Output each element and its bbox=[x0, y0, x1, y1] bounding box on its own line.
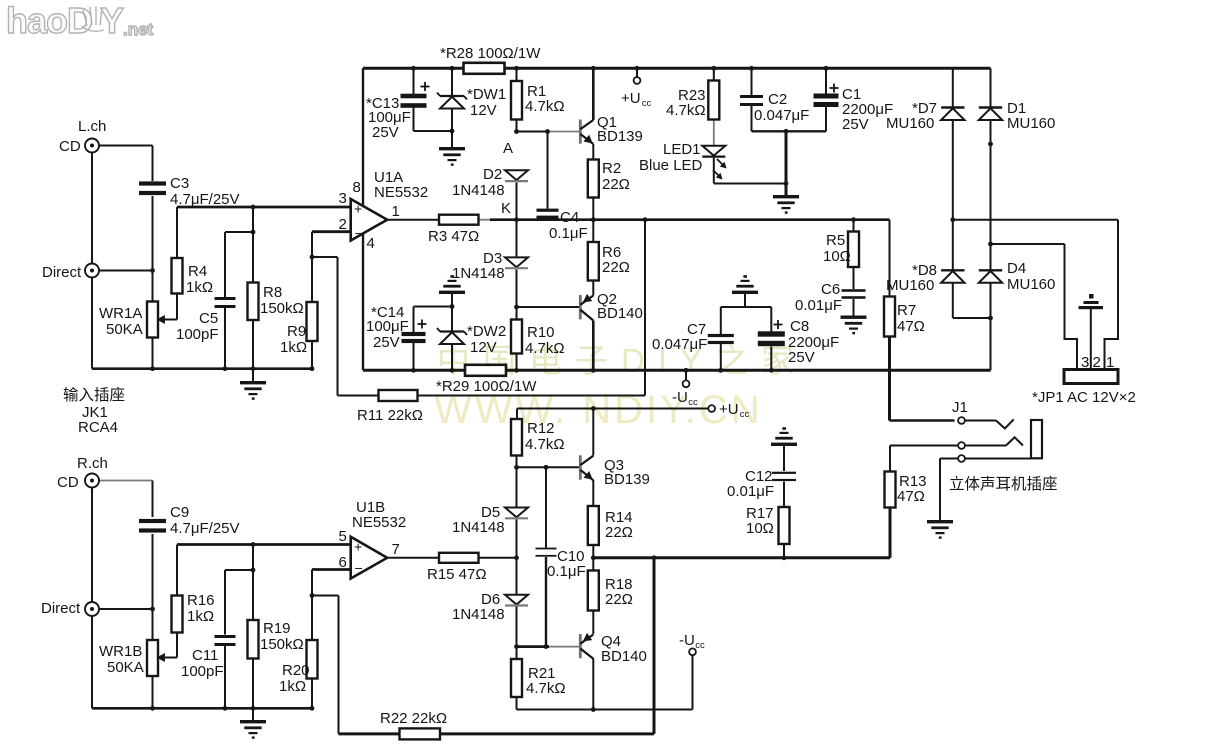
svg-text:D4: D4 bbox=[1007, 260, 1026, 277]
svg-text:BD140: BD140 bbox=[601, 648, 647, 665]
svg-text:LED1: LED1 bbox=[663, 141, 701, 158]
svg-text:R7: R7 bbox=[897, 302, 916, 319]
svg-text:1N4148: 1N4148 bbox=[452, 519, 505, 536]
svg-text:cc: cc bbox=[740, 409, 750, 420]
svg-text:MU160: MU160 bbox=[1007, 276, 1055, 293]
svg-text:1kΩ: 1kΩ bbox=[187, 608, 214, 625]
svg-text:0.047μF: 0.047μF bbox=[652, 336, 707, 353]
svg-text:C8: C8 bbox=[790, 318, 809, 335]
svg-text:25V: 25V bbox=[842, 116, 869, 133]
svg-text:haoD: haoD bbox=[6, 0, 92, 41]
svg-text:10Ω: 10Ω bbox=[823, 248, 851, 265]
svg-text:C11: C11 bbox=[192, 647, 218, 664]
svg-text:10Ω: 10Ω bbox=[746, 520, 774, 537]
svg-text:立体声耳机插座: 立体声耳机插座 bbox=[949, 475, 1058, 493]
svg-text:R10: R10 bbox=[527, 324, 555, 341]
svg-text:22Ω: 22Ω bbox=[602, 176, 630, 193]
svg-text:R19: R19 bbox=[263, 620, 291, 637]
svg-text:150kΩ: 150kΩ bbox=[260, 300, 304, 317]
svg-text:L.ch: L.ch bbox=[78, 118, 106, 135]
svg-text:输入插座: 输入插座 bbox=[63, 386, 125, 404]
svg-text:MU160: MU160 bbox=[886, 115, 934, 132]
svg-text:C3: C3 bbox=[170, 175, 189, 192]
svg-text:Y: Y bbox=[100, 0, 124, 41]
svg-text:0.1μF: 0.1μF bbox=[547, 563, 586, 580]
svg-text:C2: C2 bbox=[768, 91, 787, 108]
svg-text:*JP1 AC 12V×2: *JP1 AC 12V×2 bbox=[1032, 389, 1136, 406]
svg-text:cc: cc bbox=[695, 640, 705, 651]
svg-text:4.7kΩ: 4.7kΩ bbox=[666, 102, 706, 119]
svg-text:Blue LED: Blue LED bbox=[639, 157, 703, 174]
svg-text:cc: cc bbox=[642, 98, 652, 109]
svg-text:0.01μF: 0.01μF bbox=[795, 297, 842, 314]
svg-text:1N4148: 1N4148 bbox=[452, 606, 505, 623]
svg-text:*DW1: *DW1 bbox=[467, 86, 506, 103]
svg-text:*DW2: *DW2 bbox=[467, 323, 506, 340]
svg-text:C9: C9 bbox=[170, 504, 189, 521]
svg-text:1kΩ: 1kΩ bbox=[280, 339, 307, 356]
svg-text:NE5532: NE5532 bbox=[374, 184, 428, 201]
svg-text:0.01μF: 0.01μF bbox=[727, 483, 774, 500]
svg-text:47Ω: 47Ω bbox=[897, 488, 925, 505]
svg-text:WR1B: WR1B bbox=[99, 643, 142, 660]
svg-text:4.7kΩ: 4.7kΩ bbox=[525, 436, 565, 453]
svg-text:5: 5 bbox=[339, 528, 347, 545]
svg-text:1N4148: 1N4148 bbox=[452, 265, 505, 282]
svg-text:R15 47Ω: R15 47Ω bbox=[427, 566, 487, 583]
svg-text:R9: R9 bbox=[287, 323, 306, 340]
svg-text:CD: CD bbox=[59, 138, 81, 155]
svg-text:-U: -U bbox=[679, 632, 695, 649]
svg-text:R5: R5 bbox=[826, 232, 845, 249]
svg-text:−: − bbox=[355, 560, 363, 576]
svg-text:47Ω: 47Ω bbox=[897, 318, 925, 335]
svg-text:4.7μF/25V: 4.7μF/25V bbox=[170, 191, 240, 208]
svg-text:1kΩ: 1kΩ bbox=[279, 678, 306, 695]
svg-text:0.1μF: 0.1μF bbox=[549, 225, 588, 242]
svg-text:*R29 100Ω/1W: *R29 100Ω/1W bbox=[436, 378, 537, 395]
svg-text:R11 22kΩ: R11 22kΩ bbox=[357, 407, 423, 424]
svg-text:4.7kΩ: 4.7kΩ bbox=[525, 98, 565, 115]
svg-text:25V: 25V bbox=[373, 334, 400, 351]
svg-text:C4: C4 bbox=[560, 209, 579, 226]
svg-text:NE5532: NE5532 bbox=[352, 514, 406, 531]
svg-text:150kΩ: 150kΩ bbox=[260, 636, 304, 653]
svg-text:Direct: Direct bbox=[41, 600, 81, 617]
svg-text:+U: +U bbox=[621, 90, 641, 107]
svg-text:cc: cc bbox=[688, 397, 698, 408]
svg-text:1kΩ: 1kΩ bbox=[186, 279, 213, 296]
svg-text:100μF: 100μF bbox=[366, 318, 409, 335]
svg-text:K: K bbox=[501, 200, 511, 217]
svg-text:R4: R4 bbox=[188, 263, 207, 280]
svg-text:2: 2 bbox=[339, 216, 347, 233]
svg-text:4: 4 bbox=[367, 235, 375, 252]
svg-text:4.7kΩ: 4.7kΩ bbox=[526, 680, 566, 697]
svg-text:22Ω: 22Ω bbox=[605, 591, 633, 608]
svg-text:25V: 25V bbox=[372, 124, 399, 141]
svg-text:50KA: 50KA bbox=[106, 321, 143, 338]
svg-text:R3 47Ω: R3 47Ω bbox=[428, 228, 479, 245]
svg-text:R12: R12 bbox=[527, 420, 555, 437]
svg-text:BD139: BD139 bbox=[604, 471, 650, 488]
svg-text:WR1A: WR1A bbox=[99, 305, 142, 322]
svg-text:C6: C6 bbox=[821, 281, 840, 298]
svg-text:BD139: BD139 bbox=[597, 128, 643, 145]
svg-text:MU160: MU160 bbox=[886, 277, 934, 294]
svg-text:BD140: BD140 bbox=[597, 305, 643, 322]
svg-text:D2: D2 bbox=[483, 166, 502, 183]
svg-text:+: + bbox=[354, 539, 362, 555]
svg-text:J1: J1 bbox=[952, 399, 968, 416]
svg-text:MU160: MU160 bbox=[1007, 115, 1055, 132]
svg-text:-U: -U bbox=[672, 389, 688, 406]
svg-text:1: 1 bbox=[1106, 354, 1114, 371]
svg-text:.net: .net bbox=[123, 20, 154, 39]
svg-text:+: + bbox=[354, 201, 362, 217]
svg-text:RCA4: RCA4 bbox=[78, 419, 118, 436]
svg-text:0.047μF: 0.047μF bbox=[754, 107, 809, 124]
svg-text:100pF: 100pF bbox=[181, 663, 224, 680]
svg-text:100pF: 100pF bbox=[176, 326, 219, 343]
svg-text:Direct: Direct bbox=[42, 264, 82, 281]
svg-text:6: 6 bbox=[339, 554, 347, 571]
svg-text:3: 3 bbox=[339, 190, 347, 207]
svg-text:R8: R8 bbox=[263, 284, 282, 301]
svg-text:R16: R16 bbox=[187, 592, 215, 609]
svg-text:3: 3 bbox=[1081, 354, 1089, 371]
svg-text:1N4148: 1N4148 bbox=[452, 182, 505, 199]
svg-text:2: 2 bbox=[1093, 354, 1101, 371]
svg-text:50KA: 50KA bbox=[107, 659, 144, 676]
svg-text:22Ω: 22Ω bbox=[605, 524, 633, 541]
svg-text:C5: C5 bbox=[199, 310, 218, 327]
svg-text:R.ch: R.ch bbox=[77, 455, 108, 472]
svg-text:1: 1 bbox=[392, 203, 400, 220]
svg-text:R2: R2 bbox=[602, 160, 621, 177]
svg-text:R20: R20 bbox=[282, 662, 310, 679]
svg-text:+U: +U bbox=[719, 401, 739, 418]
svg-text:7: 7 bbox=[392, 541, 400, 558]
svg-text:A: A bbox=[503, 140, 513, 157]
svg-text:CD: CD bbox=[57, 474, 79, 491]
svg-text:25V: 25V bbox=[788, 349, 815, 366]
svg-text:*R28 100Ω/1W: *R28 100Ω/1W bbox=[440, 45, 541, 62]
svg-text:4.7kΩ: 4.7kΩ bbox=[525, 340, 565, 357]
svg-text:12V: 12V bbox=[470, 339, 497, 356]
svg-text:12V: 12V bbox=[470, 102, 497, 119]
svg-text:R22 22kΩ: R22 22kΩ bbox=[380, 710, 447, 727]
svg-text:−: − bbox=[355, 225, 363, 241]
svg-text:8: 8 bbox=[353, 179, 361, 196]
svg-text:4.7μF/25V: 4.7μF/25V bbox=[170, 520, 240, 537]
svg-text:22Ω: 22Ω bbox=[602, 259, 630, 276]
